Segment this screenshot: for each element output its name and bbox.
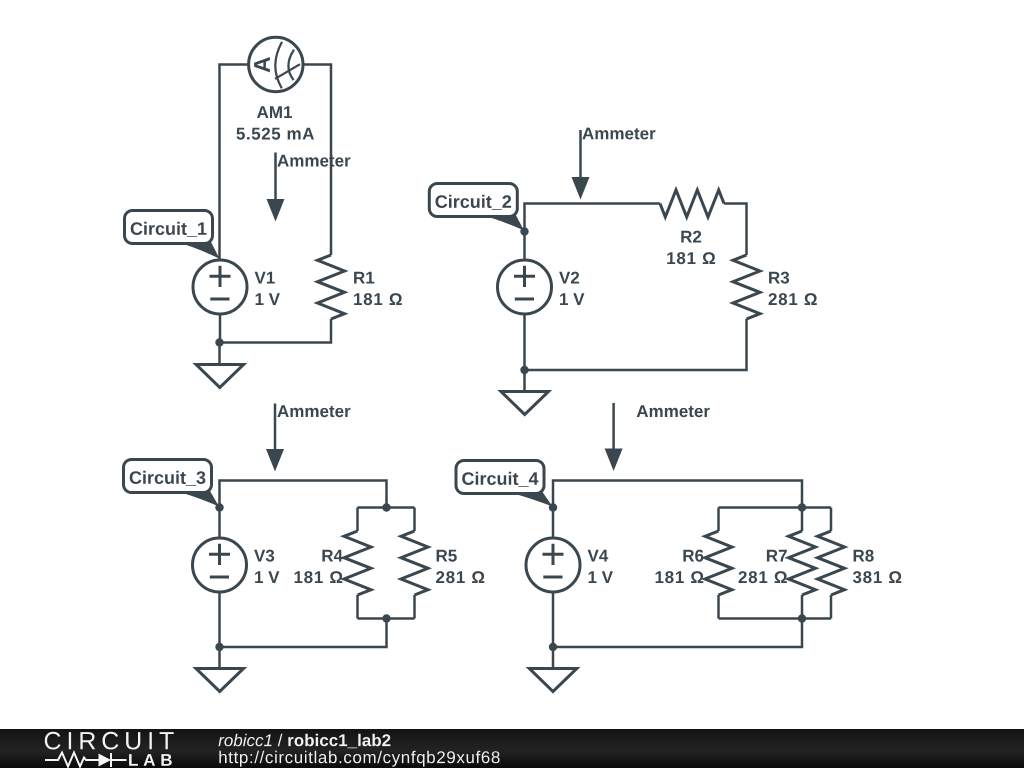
value 181 ohm	[295, 571, 343, 583]
node junction dot circuit 3	[215, 643, 223, 651]
value 281 ohm	[436, 571, 484, 583]
wire V4 top rail to parallel trio	[553, 481, 802, 537]
wire ammeter AM1 right to resistor R1 top	[303, 65, 331, 256]
value 5.525 mA	[237, 128, 315, 140]
voltage source V1	[193, 260, 247, 314]
annotation text Ammeter	[637, 405, 710, 417]
label AM1	[257, 106, 292, 118]
flag Circuit_2	[429, 184, 524, 231]
label R7	[767, 550, 787, 562]
label R1	[354, 272, 374, 284]
resistor R1	[318, 255, 345, 319]
node dot parallel top circuit 3	[382, 503, 390, 511]
label R8	[854, 550, 874, 562]
ammeter annotation arrow	[572, 130, 590, 200]
wire parallel bottom rail circuit 3	[220, 619, 415, 648]
wire V4 bottom to ground	[552, 592, 555, 669]
label R2	[681, 231, 701, 243]
wire V2 top to resistor R2	[525, 204, 661, 259]
wire R1 bottom to node A rail	[220, 319, 332, 343]
ammeter annotation arrow	[605, 403, 623, 471]
node dot parallel top circuit 4	[798, 503, 806, 511]
node dot label attach circuit 4	[549, 503, 557, 511]
resistor R5	[401, 508, 428, 619]
ground circuit 2	[501, 392, 549, 415]
wire V3 top rail to parallel pair	[220, 481, 387, 537]
label V1	[255, 272, 275, 284]
value 381 ohm	[853, 571, 901, 583]
wire R2 right to resistor R3 top	[724, 204, 747, 256]
node dot label attach circuit 2	[520, 227, 528, 235]
node junction dot circuit 4	[549, 643, 557, 651]
resistor R3	[733, 255, 760, 319]
ground circuit 1	[196, 365, 244, 388]
footer bar	[0, 729, 1024, 768]
ground circuit 4	[529, 669, 577, 692]
ammeter annotation arrow	[267, 153, 285, 222]
annotation text Ammeter	[277, 155, 350, 167]
wire V1 top to ammeter AM1 left	[220, 65, 249, 259]
annotation text Ammeter	[277, 405, 350, 417]
resistor R6	[705, 508, 732, 619]
value 281 ohm	[739, 571, 787, 583]
resistor R4	[344, 508, 371, 619]
logo LAB	[129, 754, 172, 766]
wire parallel top rail circuit 3	[358, 506, 415, 509]
wire V3 bottom to ground	[218, 592, 221, 669]
flag Circuit_1	[125, 211, 220, 259]
logo resistor-diode glyph	[45, 753, 127, 768]
wire V2 bottom to ground	[523, 314, 526, 392]
node dot label attach circuit 3	[215, 503, 223, 511]
resistor R2	[660, 190, 724, 217]
value 1 V	[256, 293, 280, 305]
value 181 ohm	[656, 571, 704, 583]
resistor R8	[818, 508, 845, 619]
flag Circuit_4	[456, 461, 553, 507]
value 1 V	[589, 571, 613, 583]
label R5	[437, 550, 457, 562]
value 181 ohm	[354, 293, 402, 305]
flag Circuit_3	[124, 460, 220, 507]
value 1 V	[560, 293, 584, 305]
ammeter AM1	[249, 37, 303, 91]
node junction dot circuit 2	[520, 366, 528, 374]
wire R3 bottom to V2 bottom node	[525, 319, 747, 370]
label R6	[683, 550, 703, 562]
value 281 ohm	[769, 293, 817, 305]
wire parallel bottom rails circuit 4	[553, 619, 831, 648]
value 181 ohm	[667, 252, 715, 264]
label V2	[559, 272, 579, 284]
footer title robicc1 / robicc1_lab2	[219, 734, 272, 747]
label R4	[322, 550, 343, 562]
label V3	[254, 550, 274, 562]
voltage source V3	[193, 538, 247, 592]
wire V1 bottom to ground	[218, 314, 221, 365]
voltage source V4	[526, 538, 580, 592]
node junction dot circuit 1	[215, 338, 223, 346]
ammeter annotation arrow	[266, 404, 284, 472]
wire parallel top rails circuit 4	[719, 506, 832, 509]
logo CIRCUIT wordmark	[45, 732, 174, 750]
value 1 V	[255, 571, 279, 583]
label V4	[588, 550, 609, 562]
resistor R7	[789, 508, 816, 619]
footer url	[219, 751, 499, 767]
node dot parallel bottom circuit 3	[382, 614, 390, 622]
ground circuit 3	[196, 669, 244, 692]
annotation text Ammeter	[582, 128, 655, 140]
label R3	[769, 272, 789, 284]
voltage source V2	[498, 260, 552, 314]
node dot parallel bottom circuit 4	[798, 614, 806, 622]
